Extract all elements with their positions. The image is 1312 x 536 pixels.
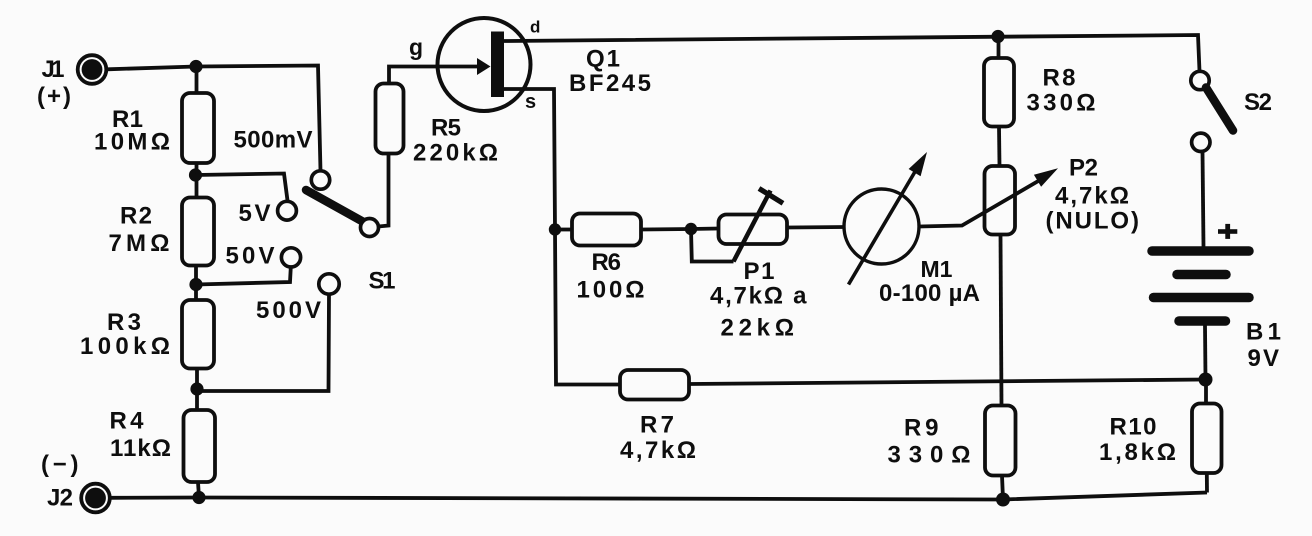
resistor R6 bbox=[572, 214, 641, 246]
svg-text:22kΩ: 22kΩ bbox=[721, 315, 795, 342]
svg-text:500mV: 500mV bbox=[234, 127, 313, 154]
wire P1 to M1 bbox=[788, 225, 846, 229]
resistor R4 bbox=[184, 410, 216, 482]
jack J2 bbox=[81, 484, 110, 513]
wire R9 to node J bbox=[1002, 476, 1003, 500]
wire R8 to P2 bbox=[997, 127, 1001, 167]
wire J1 to node A bbox=[107, 67, 196, 70]
resistor R3 bbox=[182, 300, 214, 369]
node I junction drain rail/R8 bbox=[991, 30, 1004, 43]
svg-text:330Ω: 330Ω bbox=[1027, 90, 1096, 117]
node B junction R1/R2/5V bbox=[189, 168, 202, 181]
svg-text:R4: R4 bbox=[110, 408, 145, 435]
svg-text:4,7kΩ a: 4,7kΩ a bbox=[710, 283, 807, 310]
node F junction source/R6/R7 bbox=[549, 223, 561, 235]
wire node B to 5V terminal bbox=[196, 174, 288, 203]
svg-text:R6: R6 bbox=[592, 249, 622, 276]
svg-text:(−): (−) bbox=[41, 451, 79, 478]
svg-text:s: s bbox=[525, 91, 536, 113]
meter M1 body bbox=[844, 189, 919, 264]
P1 wiper arm bbox=[734, 191, 771, 262]
svg-text:R3: R3 bbox=[107, 309, 141, 336]
svg-text:(+): (+) bbox=[37, 83, 71, 110]
node J junction R9/bottom rail bbox=[996, 493, 1010, 507]
battery + sign horizontal bar bbox=[1218, 229, 1237, 234]
switch S1 pole contact bbox=[361, 219, 379, 237]
wire R3 to node D bbox=[195, 369, 199, 411]
wire node G to R10 bbox=[1204, 380, 1208, 404]
wire node H to P1 wiper (bypass) bbox=[691, 229, 734, 262]
terminal 500mV bbox=[311, 171, 329, 189]
node C junction R2/R3/50V bbox=[189, 278, 202, 291]
resistor R5 bbox=[376, 84, 404, 154]
wire node I to R8 bbox=[997, 37, 1001, 59]
wire R10 to bottom rail bbox=[1205, 473, 1209, 493]
source wire of Q1 bbox=[504, 89, 555, 230]
potentiometer P2 body bbox=[985, 166, 1016, 235]
wire node A to R1 bbox=[195, 67, 199, 94]
node G junction battery/rail/R10 bbox=[1199, 373, 1213, 387]
potentiometer P1 body bbox=[719, 215, 788, 245]
wire node C to 50V terminal bbox=[196, 267, 291, 285]
svg-text:11kΩ: 11kΩ bbox=[110, 435, 171, 462]
svg-text:100Ω: 100Ω bbox=[577, 277, 645, 304]
battery B1 plate 4 short bbox=[1179, 316, 1226, 326]
svg-text:J1: J1 bbox=[42, 56, 65, 83]
middle rail wire R7 to node G bbox=[689, 380, 1206, 385]
node E junction R4/bottom rail bbox=[192, 491, 205, 504]
wire R4 to node E bbox=[198, 482, 199, 498]
wire M1 to P2 wiper bbox=[919, 180, 1040, 227]
wire node A to 500mV terminal bbox=[196, 66, 321, 172]
node D junction R3/R4/500V bbox=[190, 382, 203, 395]
svg-text:S1: S1 bbox=[369, 268, 396, 295]
node A junction J1/R1/500mV bbox=[189, 60, 202, 73]
svg-text:R7: R7 bbox=[640, 412, 674, 439]
wire node H to P1 body bbox=[691, 227, 719, 231]
wire battery − to node G bbox=[1203, 326, 1207, 380]
wire R2 to node C bbox=[194, 266, 198, 301]
M1 needle bbox=[849, 170, 917, 285]
switch S2 bottom contact bbox=[1192, 133, 1210, 151]
transistor Q1 body bbox=[438, 18, 531, 111]
svg-text:R2: R2 bbox=[120, 203, 152, 230]
svg-text:5V: 5V bbox=[239, 200, 271, 227]
resistor R1 bbox=[182, 93, 214, 163]
svg-text:P1: P1 bbox=[744, 258, 775, 285]
wire R6 to node H bbox=[641, 227, 691, 231]
resistor R10 bbox=[1192, 404, 1222, 474]
wire node F to R6 bbox=[558, 228, 572, 232]
switch S1 lever bbox=[306, 190, 368, 225]
P1 wiper end bar bbox=[759, 189, 783, 204]
terminal 500V bbox=[319, 274, 339, 294]
battery B1 plate 3 long bbox=[1154, 293, 1250, 303]
bottom rail wire bbox=[110, 493, 1207, 500]
drain rail wire to S2 bbox=[504, 35, 1200, 71]
svg-text:P2: P2 bbox=[1069, 155, 1098, 182]
svg-text:R5: R5 bbox=[431, 115, 461, 142]
resistor R8 bbox=[984, 58, 1014, 127]
svg-text:220kΩ: 220kΩ bbox=[413, 140, 498, 167]
svg-text:7MΩ: 7MΩ bbox=[109, 230, 170, 257]
terminal 50V bbox=[281, 248, 300, 267]
terminal 5V bbox=[278, 201, 297, 220]
wire node F to R7 bbox=[555, 230, 620, 385]
svg-text:J2: J2 bbox=[47, 485, 73, 512]
battery + sign vertical bar bbox=[1225, 224, 1230, 239]
svg-text:1,8kΩ: 1,8kΩ bbox=[1099, 439, 1176, 466]
gate arrow of Q1 bbox=[477, 58, 491, 75]
svg-text:R10: R10 bbox=[1110, 414, 1157, 441]
jack J1 bbox=[78, 55, 107, 84]
resistor R7 bbox=[620, 370, 689, 400]
P2 wiper arrowhead bbox=[1034, 168, 1058, 187]
svg-text:4,7kΩ: 4,7kΩ bbox=[1055, 183, 1129, 210]
switch S2 top contact bbox=[1191, 71, 1209, 89]
wire R1 to node B bbox=[195, 163, 199, 198]
svg-text:4,7kΩ: 4,7kΩ bbox=[620, 437, 696, 464]
wire R5 to gate of Q1 bbox=[389, 67, 478, 84]
svg-text:Q1: Q1 bbox=[586, 46, 620, 73]
svg-text:R8: R8 bbox=[1043, 65, 1076, 92]
svg-text:50V: 50V bbox=[226, 243, 275, 270]
svg-text:R9: R9 bbox=[904, 415, 939, 442]
battery B1 plate 2 short bbox=[1177, 270, 1226, 280]
transistor Q1 channel bar bbox=[491, 32, 504, 98]
wire node D to 500V terminal bbox=[197, 295, 329, 392]
wire S2 to battery + bbox=[1203, 152, 1204, 248]
battery B1 plate 1 long bbox=[1152, 246, 1249, 256]
wire S1 pole to R5 bbox=[379, 154, 389, 227]
M1 needle arrowhead bbox=[909, 152, 927, 176]
svg-text:10MΩ: 10MΩ bbox=[94, 129, 170, 156]
svg-text:500V: 500V bbox=[256, 297, 321, 324]
svg-text:g: g bbox=[409, 34, 423, 60]
wire P2 to R9 bbox=[1001, 235, 1002, 406]
resistor R9 bbox=[985, 406, 1016, 476]
svg-text:BF245: BF245 bbox=[569, 70, 651, 97]
svg-text:9V: 9V bbox=[1248, 345, 1280, 372]
node H junction R6/P1 bbox=[685, 223, 697, 235]
svg-text:S2: S2 bbox=[1244, 89, 1272, 116]
svg-text:d: d bbox=[530, 18, 540, 37]
resistor R2 bbox=[182, 198, 214, 266]
svg-text:M1: M1 bbox=[921, 256, 953, 282]
svg-text:0-100 µA: 0-100 µA bbox=[879, 280, 980, 307]
switch S2 lever bbox=[1206, 88, 1233, 131]
